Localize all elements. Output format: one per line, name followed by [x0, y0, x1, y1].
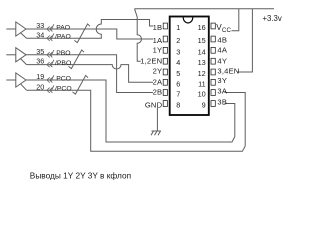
svg-text:15: 15: [198, 36, 206, 45]
svg-text:5: 5: [176, 69, 180, 78]
svg-text:+3.3v: +3.3v: [263, 14, 282, 23]
driver D3 (channel C): [6, 73, 26, 90]
svg-text:16: 16: [198, 23, 206, 32]
pin boxes right 16-9: [211, 23, 215, 106]
svg-text:1A: 1A: [153, 36, 163, 45]
svg-text:PCO: PCO: [56, 75, 71, 82]
twisted pair mark C: [73, 75, 89, 94]
driver D1 (channel A): [6, 22, 26, 38]
svg-text:8: 8: [176, 101, 180, 110]
svg-text:19: 19: [36, 72, 44, 81]
wire PBO from driver to 2B: [26, 55, 153, 93]
connector pin numbers: [36, 21, 44, 91]
svg-text:1,2EN: 1,2EN: [140, 57, 162, 66]
wire rail to 1,2EN (hop over 1A wire): [135, 9, 142, 62]
connector pin 19 chevrons: [47, 75, 54, 82]
svg-text:4Y: 4Y: [217, 56, 227, 65]
IC notch: [183, 17, 193, 23]
svg-text:2A: 2A: [153, 78, 163, 87]
svg-text:1Y: 1Y: [153, 45, 163, 54]
wire GND drop: [156, 108, 158, 131]
svg-text:9: 9: [202, 101, 206, 110]
wire PAO from driver to 1A: [26, 29, 153, 39]
svg-text:4: 4: [176, 58, 180, 67]
svg-text:3Y: 3Y: [217, 76, 227, 85]
svg-text:33: 33: [36, 21, 44, 30]
svg-text:2: 2: [176, 36, 180, 45]
svg-text:13: 13: [198, 58, 206, 67]
svg-text:Выводы 1Y 2Y 3Y в кфлоп: Выводы 1Y 2Y 3Y в кфлоп: [30, 171, 131, 181]
svg-text:14: 14: [198, 47, 206, 56]
svg-text:CC: CC: [222, 27, 232, 34]
connector pin 36 chevrons: [47, 60, 54, 67]
svg-text:1B: 1B: [153, 23, 163, 32]
svg-text:GND: GND: [145, 100, 163, 109]
svg-text:20: 20: [36, 82, 44, 91]
svg-text:4A: 4A: [217, 45, 227, 54]
svg-text:3B: 3B: [217, 97, 227, 106]
pin numbers inside IC left: [176, 23, 180, 109]
wire VCC to rail: [232, 9, 239, 31]
svg-text:4B: 4B: [217, 36, 227, 45]
chassis ground symbol: [151, 131, 161, 135]
IC right pin labels: [216, 23, 239, 107]
signal name labels: [55, 24, 72, 92]
wire /PBO from driver to 2A (dip under PBO drop): [27, 65, 154, 83]
svg-text:PBO: PBO: [56, 50, 70, 57]
IC left pin labels: [140, 23, 163, 109]
pin numbers inside IC right: [198, 23, 206, 109]
svg-text:3,4EN: 3,4EN: [217, 67, 239, 76]
pin boxes left 1-8: [163, 23, 167, 106]
svg-text:2B: 2B: [153, 88, 163, 97]
svg-text:12: 12: [198, 69, 206, 78]
svg-text:1: 1: [176, 23, 180, 32]
svg-text:6: 6: [176, 79, 180, 88]
svg-text:2Y: 2Y: [153, 67, 163, 76]
wire PCO to 3B via bottom bus: [26, 80, 235, 142]
IC U1 body: [170, 17, 209, 116]
svg-text:/PAO: /PAO: [55, 34, 71, 41]
twisted pair mark A: [74, 24, 90, 43]
connector pin 33 chevrons: [47, 24, 54, 31]
svg-text:3A: 3A: [217, 86, 227, 95]
connector pin 35 chevrons: [47, 50, 54, 57]
connector pin 20 chevrons: [47, 85, 54, 92]
svg-text:10: 10: [198, 90, 206, 99]
twisted pair mark B: [69, 50, 85, 69]
connector pin 34 chevrons: [47, 33, 54, 40]
svg-text:35: 35: [36, 47, 44, 56]
wire 3,4EN to rail: [237, 9, 252, 72]
svg-text:36: 36: [36, 57, 44, 66]
+3.3v power rail: [135, 8, 275, 10]
driver D2 (channel B): [6, 48, 26, 65]
wire /PCO to 3A via bottom bus: [27, 90, 246, 151]
svg-text:PAO: PAO: [56, 24, 70, 31]
svg-text:7: 7: [176, 90, 180, 99]
wire /PAO from driver riser to 1B (hop over PAO): [27, 20, 154, 39]
svg-text:/PBO: /PBO: [55, 60, 71, 67]
svg-text:11: 11: [198, 79, 206, 88]
svg-text:/PCO: /PCO: [55, 86, 72, 93]
svg-text:3: 3: [176, 47, 180, 56]
svg-text:34: 34: [36, 30, 44, 39]
